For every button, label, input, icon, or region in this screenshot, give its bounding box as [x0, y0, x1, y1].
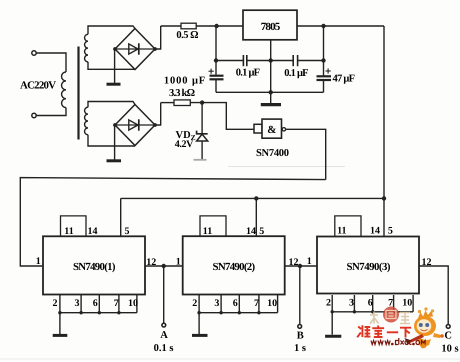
- label chip3 name: [347, 261, 391, 273]
- wire secondary2 top lead: [88, 102, 135, 108]
- svg-text:3: 3: [214, 298, 219, 309]
- label 4.2V: [175, 139, 194, 150]
- svg-text:12: 12: [422, 257, 432, 268]
- label 0.1s: [154, 343, 174, 354]
- gate SN7400 body: [262, 119, 282, 138]
- faint scan artifact line mid: [228, 166, 345, 168]
- counter SN7490(1) body: [43, 236, 145, 294]
- node 47uF junction: [321, 24, 325, 28]
- ground bridge1: [107, 83, 121, 86]
- wire chip1 pin12 to chip2 pin1: [145, 265, 183, 267]
- transformer core: [77, 47, 79, 140]
- wire B1 negative to ground: [114, 49, 116, 83]
- SN7490(1) bottom pin stubs: [60, 295, 137, 313]
- svg-text:0.1 s: 0.1 s: [154, 343, 174, 354]
- wire 7805 ground pin: [270, 40, 272, 103]
- wire mid cap3 to 47uF: [298, 60, 324, 62]
- svg-text:&: &: [267, 124, 276, 136]
- label AC220V: [20, 80, 56, 92]
- ground chip1: [53, 334, 68, 337]
- node A branch: [162, 264, 166, 268]
- zener diode VDz triangle: [197, 134, 208, 141]
- label chip3 pin 12: [422, 257, 432, 268]
- plus sign 1000uF: [209, 69, 214, 74]
- label chip3 pin 14: [370, 226, 380, 237]
- node B branch: [298, 264, 302, 268]
- svg-text:1 s: 1 s: [294, 343, 306, 354]
- label SN7400: [256, 148, 289, 159]
- watermark weiku yixia red text: [357, 325, 411, 337]
- gate SN7400 output bubble: [282, 128, 285, 131]
- label terminal C: [444, 330, 452, 341]
- node B1 left corner: [113, 47, 117, 51]
- svg-text:6: 6: [93, 298, 98, 309]
- svg-text:10 s: 10 s: [441, 344, 458, 355]
- label terminal B: [297, 331, 304, 342]
- node mid wire right: [321, 58, 325, 62]
- counter SN7490(3) body: [317, 237, 419, 294]
- svg-text:4.2V: 4.2V: [175, 139, 194, 150]
- svg-text:5: 5: [388, 226, 393, 237]
- svg-text:11: 11: [203, 226, 212, 237]
- node bottom rail gnd: [269, 90, 273, 94]
- resistor 0.5 ohm: [181, 23, 196, 29]
- AC input terminal bottom: [32, 113, 36, 117]
- svg-text:AC220V: AC220V: [20, 80, 56, 92]
- SN7490(3) pin11 loop: [335, 216, 361, 237]
- wire chip2 pin5: [255, 198, 257, 236]
- resistor 3.3k: [174, 100, 190, 106]
- node bus chip2: [254, 196, 258, 200]
- label chip1 name: [73, 261, 116, 273]
- svg-text:2: 2: [326, 298, 331, 309]
- diode inside B2: [129, 119, 139, 130]
- svg-text:14: 14: [370, 226, 380, 237]
- svg-text:1: 1: [176, 256, 181, 267]
- label chip2 pin 11: [203, 226, 212, 237]
- wire top rail left: [161, 25, 181, 27]
- svg-text:0.1 μF: 0.1 μF: [236, 68, 260, 79]
- junction dots chip3 bottom: [331, 310, 396, 313]
- gate SN7400 input box: [254, 124, 262, 133]
- wire chip1 ground lead: [59, 313, 61, 335]
- label 0.1uF first: [236, 68, 260, 79]
- label chip2 pin 1: [176, 256, 181, 267]
- capacitor 0.1uF first: [243, 55, 246, 66]
- svg-text:6: 6: [233, 298, 238, 309]
- labels chip3 bottom pins: [326, 298, 412, 309]
- wire B2 output to 3.3k rail: [155, 103, 161, 125]
- svg-text:12: 12: [146, 257, 156, 268]
- svg-text:12: 12: [289, 257, 299, 268]
- labels chip1 bottom pins: [53, 298, 139, 309]
- svg-text:7: 7: [114, 298, 119, 309]
- label chip3 pin 5: [388, 226, 393, 237]
- SN7490(2) pin11 loop: [200, 216, 226, 236]
- wire secondary1 top lead: [88, 26, 135, 34]
- labels chip2 bottom pins: [192, 298, 277, 309]
- svg-text:11: 11: [64, 226, 73, 237]
- svg-text:1000 μF: 1000 μF: [164, 76, 205, 87]
- label chip2 pin 5: [259, 226, 264, 237]
- svg-text:6: 6: [368, 298, 373, 309]
- wire +5V bus: [121, 197, 384, 199]
- counter SN7490(2) body: [183, 236, 285, 294]
- node input cap junction: [214, 24, 218, 28]
- ground chip3: [325, 335, 341, 338]
- svg-text:10: 10: [267, 298, 277, 309]
- regulator 7805: [243, 10, 297, 40]
- bridge rectifier B2: [115, 105, 155, 146]
- label 47uF: [333, 74, 356, 85]
- label chip2 name: [213, 261, 256, 273]
- svg-text:14: 14: [88, 226, 98, 237]
- wire chip1 pin5: [120, 198, 122, 236]
- terminal B: [298, 325, 302, 329]
- capacitor 1000uF leads: [215, 26, 217, 92]
- label 0.1uF second: [284, 68, 308, 79]
- wire bottom cap rail: [216, 91, 324, 93]
- capacitor 47uF leads: [323, 26, 325, 92]
- diode inside B1: [129, 43, 139, 54]
- wire primary bottom: [36, 108, 66, 116]
- wire secondary1 bottom lead: [88, 62, 135, 69]
- SN7490(1) pin11-14 loop: [61, 216, 87, 236]
- svg-text:0.1 μF: 0.1 μF: [284, 68, 308, 79]
- zener diode VDz cathode bar: [197, 131, 208, 134]
- wire chip1 bottom rail: [60, 312, 137, 314]
- svg-text:5: 5: [125, 226, 130, 237]
- label chip2 pin 12: [289, 257, 299, 268]
- wire mid cap2 to cap3: [247, 60, 293, 62]
- node bus main rail: [382, 196, 386, 200]
- node zener junction: [200, 100, 204, 104]
- AC input terminal top: [32, 51, 36, 55]
- capacitor 0.1uF second: [293, 55, 297, 66]
- wire gate output: [286, 129, 326, 179]
- label 0.5 ohm: [176, 30, 198, 41]
- wire A branch: [163, 266, 165, 323]
- wire feedback to pin1: [20, 178, 325, 266]
- transformer primary winding: [62, 72, 66, 108]
- wire secondary2 bottom lead: [88, 135, 135, 146]
- SN7490(2) bottom pin stubs: [199, 295, 278, 313]
- label chip3 pin 11: [337, 226, 346, 237]
- wire 7805 output rail: [297, 25, 384, 27]
- label chip1 pin 14: [88, 226, 98, 237]
- ground bridge2: [107, 159, 122, 162]
- wire B branch: [299, 266, 301, 324]
- capacitor 47uF plates: [317, 76, 332, 80]
- svg-text:0.5 Ω: 0.5 Ω: [176, 30, 198, 41]
- junction dots chip1 bottom: [58, 311, 120, 314]
- svg-text:2: 2: [192, 298, 197, 309]
- label 1000uF: [164, 76, 205, 87]
- wire 3.3k rail left: [161, 102, 174, 104]
- zener diode VDz lead bottom: [201, 141, 203, 159]
- wire chip2 ground lead: [198, 313, 200, 334]
- wire primary top: [36, 53, 66, 72]
- label 10s: [441, 344, 458, 355]
- wire +5V vertical rail: [383, 26, 385, 236]
- svg-text:1: 1: [307, 256, 312, 267]
- wire mid to cap2: [216, 60, 243, 62]
- label chip1 pin 5: [125, 226, 130, 237]
- label chip3 pin 1: [307, 256, 312, 267]
- wire 3.3k rail right: [190, 103, 254, 130]
- transformer secondary winding 2: [85, 107, 88, 135]
- faint scan artifact line bottom: [0, 358, 460, 360]
- svg-text:3: 3: [75, 298, 80, 309]
- ground 7805: [261, 103, 281, 106]
- label chip1 pin 11: [64, 226, 73, 237]
- svg-text:11: 11: [337, 226, 346, 237]
- bridge rectifier B1: [115, 29, 155, 70]
- svg-text:2: 2: [53, 298, 58, 309]
- wire chip2 pin12 to chip3 pin1: [285, 265, 317, 267]
- svg-text:SN7490(3): SN7490(3): [347, 261, 391, 273]
- svg-text:47 μF: 47 μF: [333, 74, 356, 85]
- node mid wire left: [214, 58, 218, 62]
- wire chip3 ground lead: [331, 312, 333, 335]
- svg-text:5: 5: [259, 226, 264, 237]
- node mid wire 7805 gnd: [269, 58, 273, 62]
- svg-text:B: B: [297, 331, 304, 342]
- wire B2 negative to ground: [114, 125, 116, 160]
- watermark mascot: [405, 307, 444, 348]
- terminal A: [162, 323, 166, 327]
- label chip2 pin 14: [246, 226, 256, 237]
- zener end bar: [194, 159, 207, 161]
- svg-text:7805: 7805: [261, 21, 281, 33]
- junction dots chip2 bottom: [197, 311, 260, 314]
- transformer secondary winding 1: [85, 34, 88, 62]
- capacitor 1000uF plates: [210, 76, 224, 80]
- watermark red stamp: [383, 307, 399, 323]
- zener diode VDz lead top: [201, 103, 203, 134]
- label 1s: [294, 343, 306, 354]
- svg-text:SN7490(1): SN7490(1): [73, 261, 116, 273]
- label 7805: [261, 21, 281, 33]
- watermark faint logo text: [370, 312, 410, 325]
- terminal C: [446, 325, 450, 329]
- label chip1 pin 12: [146, 257, 156, 268]
- wire chip2 bottom rail: [199, 312, 278, 314]
- svg-text:14: 14: [246, 226, 256, 237]
- svg-text:SN7490(2): SN7490(2): [213, 261, 256, 273]
- node B2 right corner: [153, 123, 157, 127]
- label VDz: [176, 130, 196, 142]
- node B1 right corner: [153, 47, 157, 51]
- label 3.3k: [169, 88, 195, 99]
- label gate ampersand: [267, 124, 276, 136]
- wire chip3 bottom rail: [332, 311, 413, 313]
- wire top rail to 7805: [196, 25, 243, 27]
- watermark url red: [371, 338, 425, 345]
- node B2 left corner: [113, 123, 117, 127]
- plus sign 47uF: [326, 68, 331, 73]
- svg-text:3.3 kΩ: 3.3 kΩ: [169, 88, 195, 99]
- ground chip2: [192, 334, 208, 337]
- svg-text:10: 10: [128, 298, 138, 309]
- SN7490(3) bottom pin stubs: [332, 295, 413, 312]
- svg-text:A: A: [160, 330, 168, 341]
- label chip1 pin 1: [36, 256, 41, 267]
- svg-text:7: 7: [254, 298, 259, 309]
- wire B1 output to rail: [155, 26, 161, 49]
- svg-text:1: 1: [36, 256, 41, 267]
- label terminal A: [160, 330, 168, 341]
- svg-text:C: C: [444, 330, 452, 341]
- svg-text:SN7400: SN7400: [256, 148, 289, 159]
- wire chip3 pin12 to C: [419, 266, 448, 324]
- svg-text:3: 3: [349, 298, 354, 309]
- svg-text:10: 10: [402, 298, 412, 309]
